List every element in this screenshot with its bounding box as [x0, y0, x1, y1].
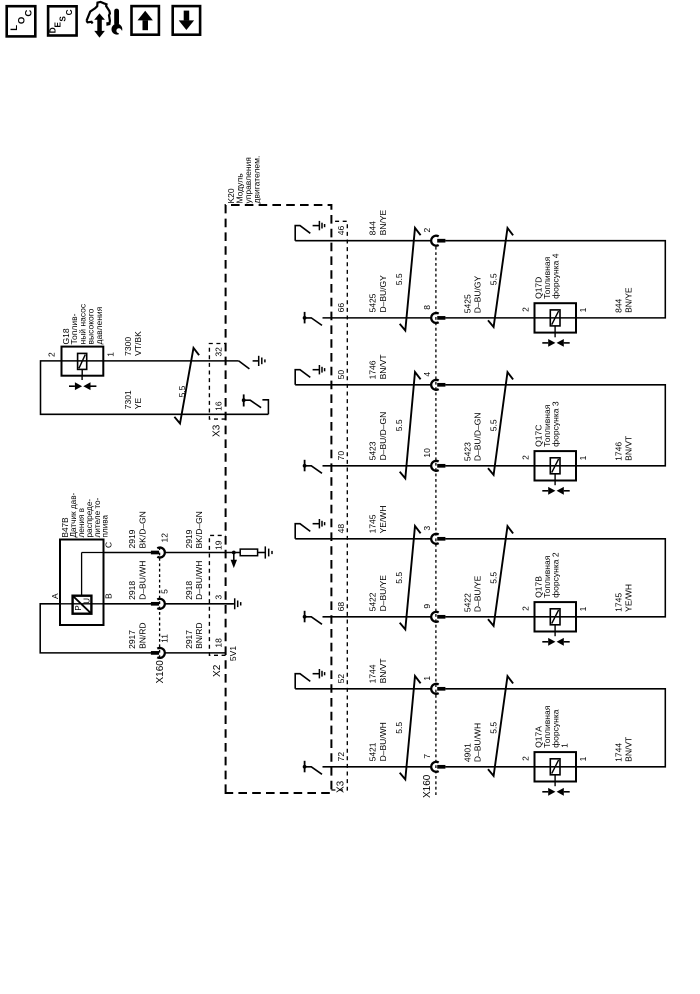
- ECM driver (ground side) for pin 50: [295, 370, 310, 385]
- svg-text:форсунка 2: форсунка 2: [551, 552, 561, 598]
- svg-text:2: 2: [47, 352, 57, 357]
- svg-text:5V1: 5V1: [228, 646, 238, 661]
- svg-text:5.5: 5.5: [489, 572, 499, 584]
- harness slash 5.5 (injector side) group C: [488, 372, 513, 475]
- svg-text:5.5: 5.5: [489, 419, 499, 431]
- ECM ground for pin 3: [226, 603, 234, 605]
- X160 inline connector line (sensor): [159, 545, 161, 658]
- svg-text:D–BU/GY: D–BU/GY: [378, 275, 388, 313]
- svg-text:D–BU/WH: D–BU/WH: [137, 561, 147, 600]
- connector box X3 (ECM top, pins 32/16): [209, 344, 225, 420]
- svg-text:7301: 7301: [123, 390, 133, 409]
- svg-text:X160: X160: [422, 774, 433, 798]
- harness slash 5.5 (ECM side) group D: [400, 228, 421, 331]
- fuel injector Q17B box: [535, 602, 577, 631]
- wire 1746 BN/VT from ECM pin 50: [295, 384, 431, 386]
- svg-text:5423: 5423: [463, 442, 473, 461]
- Q17D valve arrows: [542, 342, 548, 344]
- G18 valve arrows: [69, 385, 75, 387]
- Q17B valve stub: [554, 632, 556, 637]
- toolbar icon adjust (outline, double arrow, wrench): [87, 2, 125, 37]
- wire 2918 D-BU/WH from B47B B to ECM pin 3: [104, 603, 152, 605]
- harness slash 5.5 (injector side) group B: [488, 526, 513, 626]
- connector box X2 (ECM top, pins 19/3/18): [209, 535, 225, 655]
- svg-text:46: 46: [336, 225, 346, 235]
- wire 1745 continues to injector Q17B pin 1: [445, 539, 665, 617]
- svg-text:D–BU/WH: D–BU/WH: [473, 723, 483, 762]
- svg-text:D–BU/WH: D–BU/WH: [194, 561, 204, 600]
- svg-text:1744: 1744: [614, 743, 624, 762]
- svg-text:D–BU/WH: D–BU/WH: [378, 722, 388, 761]
- X160 connector on wire 1746: [431, 380, 439, 390]
- svg-text:2919: 2919: [127, 529, 137, 548]
- wire 2917 BN/RD from B47B A to ECM pin 18: [40, 604, 151, 653]
- svg-text:2: 2: [521, 756, 531, 761]
- wire 1746 continues to injector Q17C pin 1: [445, 385, 665, 466]
- sensor B47B box: [60, 540, 104, 626]
- svg-text:2: 2: [521, 606, 531, 611]
- connector box X3 (ECM bottom, injector pins): [331, 221, 347, 790]
- svg-text:1: 1: [578, 455, 588, 460]
- svg-text:3: 3: [213, 595, 223, 600]
- svg-text:форсунка: форсунка: [551, 709, 561, 748]
- svg-text:5.5: 5.5: [177, 385, 187, 397]
- svg-text:4901: 4901: [463, 743, 473, 762]
- X160 connector on wire 1744: [431, 684, 439, 694]
- B47B P/U symbol: [73, 596, 92, 614]
- Q17B valve arrows: [542, 641, 548, 643]
- svg-text:BN/VT: BN/VT: [623, 436, 633, 461]
- svg-text:X2: X2: [212, 664, 223, 677]
- svg-text:50: 50: [336, 370, 346, 380]
- svg-text:1746: 1746: [368, 360, 378, 379]
- fuel injector Q17D box: [535, 303, 577, 332]
- X160 connector on wire 5423: [431, 461, 439, 471]
- svg-text:5.5: 5.5: [394, 572, 404, 584]
- ECM 5V reference: junction, arrow, resistor, ground: [232, 551, 236, 555]
- svg-text:BN/VT: BN/VT: [378, 354, 388, 379]
- svg-text:давления: давления: [94, 306, 104, 344]
- ECM driver (ground side) for pin 46: [295, 226, 310, 241]
- svg-text:10: 10: [422, 448, 432, 458]
- svg-text:52: 52: [336, 674, 346, 684]
- toolbar button LOC: [7, 6, 36, 36]
- svg-text:X3: X3: [336, 780, 347, 793]
- svg-text:844: 844: [614, 298, 624, 312]
- svg-text:5425: 5425: [368, 293, 378, 312]
- wire 4901 to injector Q17A pin 2: [445, 766, 534, 768]
- svg-text:2918: 2918: [184, 581, 194, 600]
- svg-text:D–BU/YE: D–BU/YE: [473, 575, 483, 612]
- svg-text:5.5: 5.5: [489, 273, 499, 285]
- wire 5425 to injector Q17D pin 2: [445, 317, 534, 319]
- wire 1744 BN/VT from ECM pin 52: [295, 688, 431, 690]
- Q17A valve stub: [554, 782, 556, 787]
- svg-text:12: 12: [160, 533, 170, 543]
- ECM driver for pin 70: [304, 460, 306, 472]
- svg-text:D–BU/YE: D–BU/YE: [378, 575, 388, 612]
- svg-text:2: 2: [521, 307, 531, 312]
- svg-text:8: 8: [422, 305, 432, 310]
- harness slash 5.5 (ECM side) group A: [400, 676, 421, 779]
- X160 connector on wire 5422: [431, 612, 439, 622]
- svg-text:YE: YE: [133, 398, 143, 410]
- svg-text:1745: 1745: [614, 593, 624, 612]
- svg-text:BN/YE: BN/YE: [378, 209, 388, 235]
- X160 connector on wire 2918: [151, 602, 159, 606]
- svg-text:D–BU/D–GN: D–BU/D–GN: [378, 412, 388, 461]
- svg-text:32: 32: [214, 347, 224, 357]
- svg-text:1744: 1744: [368, 664, 378, 683]
- svg-text:2: 2: [521, 455, 531, 460]
- svg-text:5422: 5422: [463, 593, 473, 612]
- svg-text:форсунка 3: форсунка 3: [551, 401, 561, 447]
- svg-text:1746: 1746: [614, 442, 624, 461]
- wire 2919 BK/D-GN from B47B C to ECM pin 19: [104, 552, 152, 554]
- B47B internal links: [81, 553, 83, 596]
- fuel pump G18 box with solenoid symbol: [62, 347, 104, 376]
- svg-text:BN/YE: BN/YE: [623, 287, 633, 313]
- svg-text:1: 1: [578, 307, 588, 312]
- ECM driver for pin 68: [304, 611, 306, 623]
- wire 844 BN/YE from ECM pin 46: [295, 240, 431, 242]
- svg-text:2: 2: [422, 228, 432, 233]
- fuel injector Q17A box: [535, 752, 577, 781]
- svg-text:B: B: [104, 593, 114, 599]
- svg-text:X3: X3: [212, 424, 223, 437]
- svg-text:BN/RD: BN/RD: [194, 622, 204, 648]
- svg-text:5421: 5421: [368, 742, 378, 761]
- svg-text:2917: 2917: [184, 630, 194, 649]
- svg-text:5: 5: [160, 589, 170, 594]
- svg-text:844: 844: [368, 221, 378, 235]
- X160 connector on wire 2917: [151, 651, 159, 655]
- wire 5423 to injector Q17C pin 2: [445, 465, 534, 467]
- toolbar button scroll up: [132, 6, 159, 35]
- svg-text:C: C: [24, 10, 35, 17]
- harness slash 5.5 (injector side) group D: [488, 228, 513, 327]
- svg-text:C: C: [65, 9, 74, 15]
- wire 1745 YE/WH from ECM pin 48: [295, 538, 431, 540]
- Q17C valve arrows: [542, 490, 548, 492]
- svg-text:L: L: [9, 25, 20, 31]
- X160 connector on wire 1745: [431, 534, 439, 544]
- svg-text:YE/WH: YE/WH: [378, 506, 388, 534]
- svg-text:P: P: [74, 605, 83, 610]
- wire 5425 D–BU/GY from ECM pin 66: [323, 317, 432, 319]
- svg-text:5.5: 5.5: [394, 722, 404, 734]
- X160 connector on wire 2919: [151, 551, 159, 555]
- svg-text:18: 18: [213, 638, 223, 648]
- svg-text:5422: 5422: [368, 592, 378, 611]
- svg-text:72: 72: [336, 752, 346, 762]
- Q17D valve stub: [554, 333, 556, 338]
- G18 valve stub: [81, 376, 83, 380]
- wire 5421 D–BU/WH from ECM pin 72: [323, 766, 432, 768]
- svg-text:1745: 1745: [368, 514, 378, 533]
- svg-text:BK/D–GN: BK/D–GN: [137, 511, 147, 548]
- svg-text:BN/VT: BN/VT: [623, 737, 633, 762]
- X160 connector on wire 844: [431, 236, 439, 246]
- svg-text:U: U: [83, 598, 92, 604]
- svg-text:D–BU/D–GN: D–BU/D–GN: [473, 412, 483, 461]
- svg-text:VT/BK: VT/BK: [133, 331, 143, 356]
- svg-text:C: C: [104, 542, 114, 548]
- ECM driver for pin 66: [304, 312, 306, 324]
- wire 5423 D–BU/D–GN from ECM pin 70: [323, 465, 432, 467]
- svg-text:S: S: [58, 16, 67, 22]
- svg-text:2919: 2919: [184, 529, 194, 548]
- ECM contact for pin 16: [262, 400, 268, 415]
- svg-text:19: 19: [213, 540, 223, 550]
- wire 1744 continues to injector Q17A pin 1: [445, 689, 665, 767]
- svg-text:9: 9: [422, 604, 432, 609]
- svg-text:3: 3: [422, 526, 432, 531]
- svg-text:11: 11: [160, 634, 170, 643]
- svg-text:A: A: [50, 593, 60, 599]
- wire 844 continues to injector Q17D pin 1: [445, 241, 665, 318]
- ECM driver for pin 72: [304, 761, 306, 773]
- svg-text:5425: 5425: [463, 294, 473, 313]
- X160 connector on wire 5421: [431, 762, 439, 772]
- wire 5422 to injector Q17B pin 2: [445, 616, 534, 618]
- wire 7301 YE from G18 pin 2 around to ECM pin 16: [41, 361, 269, 414]
- harness slash 5.5 (ECM side) group C: [400, 372, 421, 478]
- svg-text:7300: 7300: [123, 337, 133, 356]
- svg-text:плива: плива: [101, 514, 110, 537]
- X160 connector on wire 5425: [431, 313, 439, 323]
- svg-text:70: 70: [336, 451, 346, 461]
- Q17C valve stub: [554, 481, 556, 486]
- svg-text:16: 16: [214, 401, 224, 411]
- ECM driver (ground side) for pin 52: [295, 674, 310, 689]
- svg-text:48: 48: [336, 524, 346, 534]
- svg-text:D–BU/GY: D–BU/GY: [473, 276, 483, 314]
- toolbar button DESC: [48, 6, 77, 35]
- svg-text:1: 1: [106, 352, 116, 357]
- ECM driver (ground side) for pin 48: [295, 524, 310, 539]
- toolbar button scroll down: [173, 6, 200, 35]
- harness slash 5.5 for G18 wires: [174, 348, 199, 424]
- svg-text:4: 4: [422, 372, 432, 377]
- svg-text:1: 1: [578, 756, 588, 761]
- svg-text:1: 1: [422, 676, 432, 681]
- svg-text:2918: 2918: [127, 581, 137, 600]
- Q17A valve arrows: [542, 791, 548, 793]
- svg-text:двигателем.: двигателем.: [252, 156, 262, 204]
- svg-text:5.5: 5.5: [489, 722, 499, 734]
- svg-text:YE/WH: YE/WH: [623, 584, 633, 612]
- svg-text:5.5: 5.5: [394, 419, 404, 431]
- harness slash 5.5 (injector side) group A: [488, 676, 513, 776]
- wire 7300 VT/BK from G18 pin 1 to ECM pin 32: [103, 360, 238, 362]
- svg-text:BN/VT: BN/VT: [378, 658, 388, 683]
- svg-text:5423: 5423: [368, 441, 378, 460]
- X160 inline connector line (injectors): [435, 246, 437, 796]
- svg-text:1: 1: [559, 743, 569, 748]
- svg-text:68: 68: [336, 602, 346, 612]
- ECM K20 dashed outline box: [226, 205, 332, 793]
- svg-text:7: 7: [422, 754, 432, 759]
- fuel injector Q17C box: [535, 451, 577, 480]
- svg-text:BK/D–GN: BK/D–GN: [194, 511, 204, 548]
- ECM driver for pin 32 with ground: [239, 361, 250, 369]
- wire 5422 D–BU/YE from ECM pin 68: [323, 616, 432, 618]
- svg-text:2917: 2917: [127, 630, 137, 649]
- svg-text:X160: X160: [155, 660, 166, 684]
- svg-text:1: 1: [578, 606, 588, 611]
- svg-text:форсунка 4: форсунка 4: [551, 253, 561, 299]
- svg-text:BN/RD: BN/RD: [137, 622, 147, 648]
- harness slash 5.5 (ECM side) group B: [400, 526, 421, 629]
- svg-text:66: 66: [336, 303, 346, 313]
- svg-text:5.5: 5.5: [394, 273, 404, 285]
